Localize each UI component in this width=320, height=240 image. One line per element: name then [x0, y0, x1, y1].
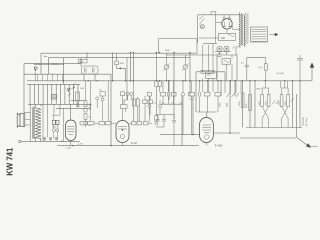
fuse F1 — [217, 46, 222, 51]
wire vertical x111 long — [110, 74, 112, 146]
wire bus H6 left — [27, 83, 80, 85]
wire vertical x63.5 — [63, 58, 65, 85]
gramophone arrow — [297, 137, 309, 145]
svg-text:5000: 5000 — [259, 102, 261, 106]
anode resistor pair V2 a — [132, 99, 135, 106]
wire vertical x292.5 — [292, 81, 294, 128]
circle under box — [101, 98, 104, 101]
wire elbow y114.5 — [156, 114, 174, 116]
resistor R2b — [171, 92, 176, 96]
power block frame — [197, 15, 199, 43]
wire bottom rail right-b — [214, 132, 240, 134]
junction dots bottom rails — [72, 145, 73, 146]
row extension circles — [126, 92, 129, 95]
capacitor stub B — [156, 115, 166, 128]
wire bottom rail right-c — [240, 137, 296, 139]
fuse F2 — [224, 46, 229, 51]
coil L2 squiggle — [52, 63, 58, 64]
coil tap ticks — [38, 74, 63, 81]
push-pull right: resistor Rc — [280, 95, 283, 107]
switch label box HF — [52, 95, 57, 100]
output transformer T1 primary zigzag — [35, 108, 41, 139]
push-pull left: resistor Ra — [261, 95, 264, 107]
output transformer T1 secondary — [30, 108, 32, 139]
wire vertical x112.7 — [112, 53, 114, 81]
label box above — [211, 12, 216, 15]
svg-text:1500: 1500 — [165, 50, 171, 52]
wire vertical x63.7 low — [63, 108, 65, 141]
mains switch squiggle — [233, 46, 242, 49]
wire bus H2 right — [48, 57, 190, 59]
wire T1 leads — [30, 104, 41, 141]
wire vertical x24 — [23, 64, 25, 113]
transformer T1 core — [34, 107, 35, 140]
wire vertical x193 — [192, 96, 194, 135]
wire top bus right H1b — [167, 54, 238, 56]
anode pair wires — [123, 95, 138, 121]
wire vertical x81 — [80, 58, 82, 66]
resistor R9b — [106, 122, 112, 125]
resistor box 30 — [79, 59, 88, 63]
power transformer T2 coil — [238, 14, 241, 45]
capacitor C11 electrolytic can — [264, 63, 267, 70]
tube V2 top cap — [121, 105, 128, 109]
node curl 2 — [67, 88, 70, 90]
wire vertical x300 — [299, 81, 301, 128]
wire verticals under box — [84, 74, 95, 81]
row box x147.3 — [147, 92, 151, 96]
tube V2 bottom lead — [122, 143, 124, 146]
junction dots top bus — [130, 52, 131, 53]
resistor R19 vertical x156.4 — [155, 116, 158, 122]
resistor R3 — [189, 92, 195, 96]
small circles x149 x157 — [148, 105, 151, 108]
wire vertical x217 — [216, 55, 218, 81]
mains connector box — [251, 27, 268, 42]
tube V1 grid electrodes — [67, 127, 75, 135]
wire verticals mid links — [91, 81, 140, 122]
rectifier pins — [223, 18, 225, 20]
tube V3 envelope — [200, 118, 214, 143]
svg-text:W: W — [100, 89, 102, 91]
wire vertical x296.5 — [296, 94, 298, 137]
switch marks — [69, 83, 76, 97]
junction dots main bus — [63, 80, 64, 81]
svg-text:0,5: 0,5 — [241, 63, 244, 65]
resistor R5 in loop — [201, 70, 214, 73]
power transformer T2 coil right — [243, 15, 246, 46]
wire bottom rail right-a — [160, 134, 200, 136]
marks diagonal between — [273, 100, 279, 104]
resistor R1 hanging — [155, 81, 158, 87]
svg-text:-1,5V: -1,5V — [78, 143, 84, 145]
resistor chain R18 circle — [84, 121, 88, 125]
voltage selector box — [219, 34, 236, 41]
wire vertical x48.3 — [47, 58, 49, 75]
resistor chain R18 box — [84, 113, 87, 119]
wire vertical x235 — [234, 81, 236, 96]
wire top bus H1 — [41, 52, 198, 54]
mains block small box — [206, 72, 217, 78]
wires right col mid — [145, 96, 150, 122]
svg-text:5000: 5000 — [266, 102, 268, 106]
svg-text:KW 741: KW 741 — [5, 147, 14, 176]
svg-text:0,5-1µF: 0,5-1µF — [277, 73, 285, 75]
svg-text:Ant: Ant — [44, 55, 48, 58]
resistor R12b tall — [249, 95, 252, 111]
tube V2 envelope — [116, 121, 129, 143]
svg-text:LW: LW — [72, 88, 75, 90]
cluster wires — [54, 115, 58, 138]
anode resistor pair V2 b — [136, 99, 139, 106]
capacitor C3 block — [115, 61, 118, 65]
svg-text:5000: 5000 — [226, 103, 228, 107]
trimmer capacitor C4 — [164, 65, 168, 69]
coil switch comb wires — [30, 84, 78, 104]
wire vertical x237 — [236, 55, 238, 81]
component cluster circle A — [52, 129, 55, 132]
resistor chain R17 circle — [84, 108, 88, 112]
resistor R1b hanging — [158, 81, 161, 87]
wire drops row — [163, 81, 218, 135]
wire dial lamp loop — [159, 39, 197, 53]
wire vertical x182 — [181, 96, 183, 135]
svg-text:(7µ): (7µ) — [258, 67, 262, 69]
component cluster circle B — [56, 129, 59, 132]
resistor R8a — [80, 122, 86, 125]
resistor R8b — [88, 122, 95, 125]
resistor R12 tall — [241, 93, 244, 108]
wire bottom links — [45, 140, 57, 141]
wire vertical x130.4 — [129, 54, 131, 81]
wire R9 link — [94, 122, 116, 124]
wire bottom rail mid — [57, 145, 199, 147]
wire bus H2 left — [24, 63, 81, 65]
resistor R10 right of V2 — [132, 122, 137, 125]
wire vertical x230 — [229, 81, 231, 133]
wire verticals lower left — [43, 104, 60, 141]
tube V3 electrodes — [203, 125, 212, 133]
trimmer capacitor C5 — [183, 65, 187, 69]
wire H7 coil bottom — [28, 103, 90, 105]
wire main HT bus — [27, 80, 312, 82]
svg-text:25Ω: 25Ω — [52, 127, 56, 129]
power bottom rail — [203, 43, 217, 45]
svg-text:E 447: E 447 — [131, 142, 138, 145]
push-pull right X wires — [282, 107, 289, 119]
resistor R9a — [99, 122, 105, 125]
capacitor C7 plates — [199, 92, 201, 97]
wire y112 segment — [197, 111, 217, 113]
wire vertical x70.7 top — [70, 104, 72, 120]
wire bottom right stub — [306, 145, 318, 147]
component cluster box B — [56, 120, 59, 124]
wire bottom rail left — [21, 140, 80, 142]
resistor R3b — [205, 92, 211, 96]
resistor R2 — [161, 92, 166, 96]
speaker terminal — [19, 140, 21, 142]
wire vertical x255 — [254, 81, 256, 128]
power transformer T2 core — [242, 14, 243, 46]
row extension box x121 — [121, 92, 125, 96]
capacitor hanging x300 — [297, 55, 303, 81]
wire vertical x242.5 — [242, 81, 244, 128]
wire vertical x250 — [249, 81, 251, 128]
tube V2 cathode circle — [120, 134, 124, 138]
tube V1 envelope — [66, 120, 77, 141]
wire top power bus — [198, 14, 241, 16]
wire power inner — [199, 15, 240, 43]
svg-text:6L6 Geg.: 6L6 Geg. — [306, 117, 308, 126]
capacitor small x78 — [77, 104, 80, 108]
wire segment y100.7 — [71, 100, 86, 102]
wire vertical x174 — [173, 53, 175, 120]
wire H104 segment — [161, 103, 182, 105]
wire vertical x127 — [124, 58, 127, 105]
wire R10 link — [129, 122, 152, 124]
resistor tall right of comb — [76, 92, 80, 101]
wire vertical x116.5 — [117, 54, 126, 81]
antenna arrow — [311, 67, 313, 81]
capacitor C1 in box — [85, 68, 87, 73]
power transformer leads — [239, 12, 245, 47]
wire H5 — [24, 73, 111, 75]
svg-text:220: 220 — [221, 37, 226, 40]
capacitor C6 plates — [172, 121, 176, 146]
wire loop top — [196, 72, 225, 81]
push-pull left X wires — [262, 107, 269, 119]
svg-text:0,1: 0,1 — [154, 102, 157, 104]
capacitor C10 plates — [167, 92, 169, 97]
wire chain x85.5 — [85, 81, 87, 127]
bandfilter box — [82, 66, 99, 74]
pilot lamp — [200, 25, 204, 29]
wire heater line — [56, 107, 90, 109]
tube V3 bottom lead — [206, 143, 208, 146]
resistor chain R17 box — [84, 101, 87, 107]
tube V1 bottom lead — [70, 141, 72, 146]
push-pull left: resistor Rb — [267, 95, 270, 107]
wire stub below bus x280.8 — [281, 81, 288, 88]
svg-text:L 416: L 416 — [66, 147, 72, 149]
marks diagonal pairs right — [227, 93, 240, 97]
power section vertical drops — [203, 44, 241, 94]
wire label row L — [34, 64, 64, 66]
svg-text:MW: MW — [81, 88, 85, 90]
rectifier anode marks — [223, 22, 232, 27]
wire vertical x221 — [220, 81, 222, 96]
terminal circle x183 — [181, 93, 184, 96]
rectifier tube V4 — [222, 19, 232, 29]
resistor R11 right of V2 — [137, 122, 142, 125]
node P curl — [34, 67, 37, 70]
wire vertical x133.3 — [132, 54, 134, 81]
svg-text:5000: 5000 — [219, 103, 221, 107]
wire vertical x190 — [189, 53, 191, 97]
svg-text:Gegentakt: Gegentakt — [302, 116, 305, 126]
terminal circle x97.2 — [96, 97, 99, 100]
power transformer T2 hatch — [246, 13, 249, 44]
switch contacts — [199, 16, 204, 25]
small boxes x143 — [143, 100, 148, 103]
wire loop segment — [247, 57, 266, 59]
capacitor stub A — [156, 115, 160, 122]
resistor R4 — [215, 92, 221, 96]
resistor R11b — [144, 122, 149, 125]
wire vertical x196 — [195, 72, 197, 112]
mains arrow — [270, 34, 277, 36]
capacitor C2 in box — [93, 68, 95, 73]
speaker LS — [20, 114, 25, 127]
component cluster box A — [52, 120, 55, 124]
capacitor C8 on H1b — [218, 54, 222, 57]
wire vertical x41 — [40, 53, 42, 74]
capacitor C9 — [245, 58, 249, 81]
svg-text:E 4428: E 4428 — [215, 146, 223, 148]
wire vertical x156.4 — [155, 53, 157, 116]
filter box — [222, 59, 231, 65]
terminal circles bottom — [43, 137, 46, 140]
wire vertical x169 — [168, 81, 170, 100]
push-pull right: resistor Rd — [287, 95, 290, 107]
mark diagonal x292 — [291, 98, 294, 102]
wire vertical x87 top — [86, 53, 88, 60]
coil L1 squiggle — [34, 63, 40, 64]
capacitor box pair mid — [100, 92, 105, 96]
tube V3 top lead — [206, 112, 208, 118]
wire right section rail — [246, 127, 302, 129]
circle under tall resistor — [76, 103, 79, 106]
